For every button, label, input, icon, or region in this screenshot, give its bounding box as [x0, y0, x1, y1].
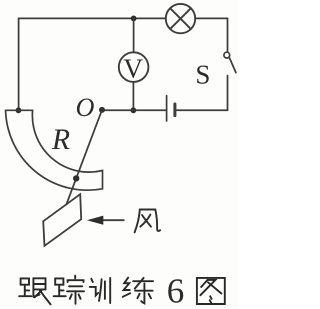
wire right vertical lower [227, 76, 229, 111]
wire left vertical down to rheostat [18, 18, 20, 110]
node: junction dot, bottom of voltmeter branch [131, 107, 137, 113]
wind arrow head [87, 216, 103, 225]
switch upper lead [227, 18, 229, 51]
node: junction dot at rheostat top end [16, 107, 22, 113]
node: wiper contact dot on band [73, 175, 79, 181]
label 风 (wind) [135, 210, 161, 233]
wire battery to right branch [176, 109, 227, 111]
svg-text:R: R [51, 124, 70, 156]
switch hinge circle [224, 52, 230, 58]
caption char 练 [123, 278, 153, 304]
caption char 图 [197, 278, 225, 304]
node O: pivot dot [99, 107, 105, 113]
wire top rail left of lamp [19, 17, 166, 19]
lamp (circle with X) [166, 4, 195, 33]
wind vane plate (parallelogram) [43, 194, 81, 246]
wire top rail right of lamp [196, 17, 228, 19]
wire voltmeter branch lower [132, 82, 134, 110]
node: junction dot, top of voltmeter branch [131, 16, 137, 22]
svg-text:S: S [195, 60, 210, 90]
switch open blade [229, 57, 236, 72]
wind arrow shaft [101, 219, 124, 221]
wire voltmeter branch upper [133, 18, 135, 52]
battery: long thin plate [166, 96, 168, 121]
caption char 跟 [19, 278, 50, 304]
svg-text:6: 6 [167, 271, 185, 309]
rheostat R: curved band resistor [6, 110, 103, 190]
svg-text:O: O [76, 93, 95, 122]
caption char 踪 [54, 276, 84, 304]
wire: node O to battery [102, 109, 167, 111]
battery: short thick plate [173, 104, 176, 116]
voltmeter circle [119, 52, 149, 82]
wiper pointer arm from O to vane [66, 110, 102, 204]
caption char 训 [90, 278, 111, 303]
svg-text:V: V [123, 53, 143, 84]
